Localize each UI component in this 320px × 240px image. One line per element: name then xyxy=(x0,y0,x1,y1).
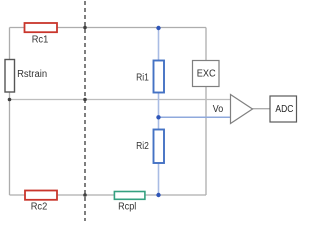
resistor Rc1 xyxy=(25,23,58,32)
dashed separator line xyxy=(84,0,86,221)
resistor Ri2 xyxy=(154,130,165,164)
EXC box xyxy=(193,61,220,87)
wire: op-amp output to ADC xyxy=(253,108,271,110)
junction at dashed/mid wire xyxy=(83,98,87,102)
resistor Rc2 xyxy=(25,191,57,200)
junction at dashed/top rail xyxy=(83,26,87,30)
resistor Rstrain xyxy=(5,60,15,93)
wire: top rail xyxy=(10,27,207,29)
wire: mid horizontal to op-amp + input xyxy=(10,99,231,101)
wire: right vertical from EXC bottom to bottom rail xyxy=(205,87,207,196)
svg-text:Ri1: Ri1 xyxy=(136,72,149,83)
junction node Vo tap between Ri1/Ri2 xyxy=(156,115,160,119)
junction at left rail/mid wire xyxy=(8,98,12,102)
wire: right vertical to EXC top xyxy=(205,28,207,61)
junction node bottom of Ri2 xyxy=(156,193,160,197)
resistor Ri1 xyxy=(154,61,165,93)
op-amp U1 xyxy=(231,95,253,124)
svg-text:Ri2: Ri2 xyxy=(136,141,149,152)
wire: blue Vo wire to op-amp - input xyxy=(159,116,231,118)
svg-text:Rc1: Rc1 xyxy=(32,35,49,46)
svg-text:EXC: EXC xyxy=(197,68,216,79)
resistor Rcpl xyxy=(114,192,144,200)
junction node top of Ri1 xyxy=(156,26,160,30)
wire: left vertical rail xyxy=(9,28,11,196)
junction at dashed/bottom rail xyxy=(83,193,87,197)
svg-text:Rcpl: Rcpl xyxy=(118,202,136,213)
svg-text:ADC: ADC xyxy=(275,104,293,115)
wire: blue vertical through Ri1/Ri2 xyxy=(158,28,160,195)
ADC box xyxy=(270,96,297,122)
svg-text:Vo: Vo xyxy=(213,104,224,115)
svg-text:Rc2: Rc2 xyxy=(31,202,48,213)
wire: bottom rail xyxy=(10,194,207,196)
svg-text:Rstrain: Rstrain xyxy=(17,69,47,80)
